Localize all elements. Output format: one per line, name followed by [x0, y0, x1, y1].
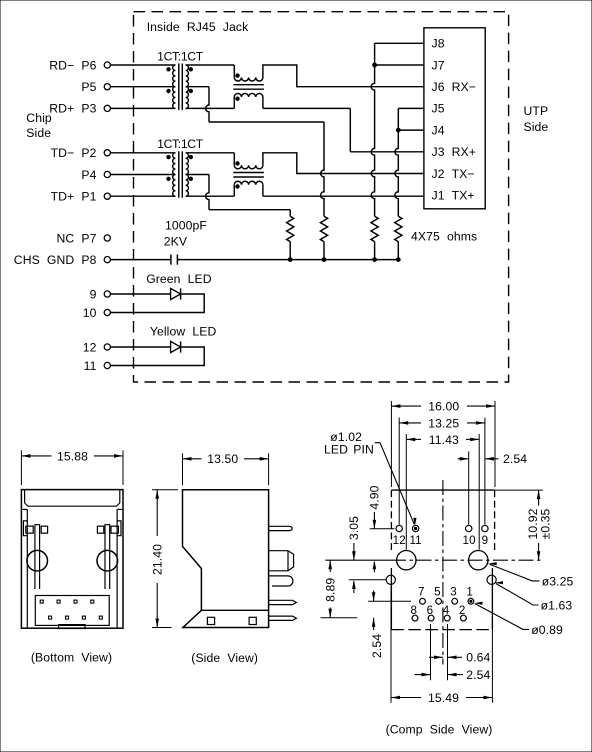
transformer T2 primary winding — [173, 153, 176, 196]
svg-text:13.50: 13.50 — [207, 452, 238, 466]
chip-side pin P3 terminal and label — [49, 102, 110, 116]
svg-text:ø3.25: ø3.25 — [542, 574, 574, 588]
label 1CT:1CT (T1) — [157, 49, 204, 63]
svg-text:2.54: 2.54 — [503, 452, 527, 466]
svg-text:1: 1 — [466, 586, 473, 599]
LED pin hole 9 — [482, 525, 488, 531]
leader o1.02 LED PIN — [324, 430, 417, 526]
wire J5-J4 bridge down to R4 — [395, 108, 424, 216]
wire T2 secondary bottom to choke CM2 — [186, 185, 235, 196]
label J3 — [432, 145, 477, 159]
svg-text:TD− P2: TD− P2 — [51, 146, 97, 160]
T1 polarity dots — [167, 68, 193, 93]
chassis bus wire C1 to resistors — [177, 259, 398, 261]
wire P1 to T2 primary — [110, 195, 175, 197]
svg-text:4.90: 4.90 — [368, 485, 382, 509]
svg-text:Chip: Chip — [26, 111, 52, 125]
wire T2 secondary top to choke CM2 — [186, 153, 235, 165]
choke CM2 core — [233, 173, 264, 178]
wire P3 to T1 primary — [110, 107, 175, 109]
choke CM1 core — [233, 85, 264, 90]
label J8 — [432, 37, 445, 51]
choke CM1 polarity dots — [236, 74, 239, 101]
side view body outline — [183, 490, 269, 628]
label J4 — [432, 123, 445, 137]
svg-text:3.05: 3.05 — [347, 516, 361, 540]
chip-side pin P4 terminal and label — [81, 168, 110, 182]
resistor R2 75 ohm — [320, 216, 327, 259]
side hole right (o1.63) — [487, 575, 496, 584]
bottom view center tab — [59, 625, 85, 629]
wire P6 to T1 primary — [110, 64, 175, 66]
svg-text:2: 2 — [459, 604, 466, 617]
transformer T2 secondary winding — [186, 153, 189, 196]
comp view dim 2.54 top — [458, 452, 528, 525]
labels 8 6 4 2 — [411, 604, 466, 617]
transformer T1 core — [179, 64, 183, 110]
svg-text:±0.35: ±0.35 — [538, 508, 552, 539]
comp view dim 4.90 — [368, 485, 395, 572]
LED pin 12 terminal and label — [83, 340, 111, 354]
bottom view right post pin — [105, 525, 110, 589]
svg-text:10: 10 — [463, 534, 476, 547]
svg-text:11: 11 — [84, 359, 97, 373]
svg-text:RD+ P3: RD+ P3 — [49, 102, 96, 116]
svg-text:8: 8 — [411, 604, 418, 617]
comp view dim 15.49 — [391, 586, 492, 705]
capacitor C1 1000pF 2KV — [171, 255, 178, 265]
svg-text:LED PIN: LED PIN — [324, 442, 374, 456]
wire P2 to T2 primary — [110, 152, 175, 154]
svg-text:J2 TX−: J2 TX− — [432, 167, 475, 181]
wire choke CM1 bottom to node — [263, 97, 350, 108]
svg-text:ø1.63: ø1.63 — [541, 598, 573, 612]
svg-text:10: 10 — [83, 306, 97, 320]
svg-text:1CT:1CT: 1CT:1CT — [157, 137, 204, 151]
svg-text:Side: Side — [524, 120, 549, 134]
side view bottom pads — [207, 617, 256, 624]
svg-text:J7: J7 — [432, 58, 445, 72]
svg-text:9: 9 — [90, 287, 97, 301]
svg-text:J8: J8 — [432, 37, 445, 51]
label Yellow LED — [150, 324, 217, 338]
svg-text:9: 9 — [482, 534, 489, 547]
svg-text:Inside RJ45 Jack: Inside RJ45 Jack — [147, 20, 249, 34]
label J1 — [432, 189, 475, 203]
svg-text:12: 12 — [393, 534, 406, 547]
svg-text:(Bottom View): (Bottom View) — [31, 650, 112, 664]
LED pin 9 terminal and label — [90, 287, 111, 301]
svg-text:Green LED: Green LED — [146, 272, 212, 286]
wire P8 to capacitor C1 — [110, 259, 170, 261]
choke CM2 top winding — [234, 165, 263, 169]
T1 center-tap wire to R2 — [186, 87, 324, 217]
junction dots on chassis bus — [288, 258, 400, 262]
svg-text:4X75 ohms: 4X75 ohms — [411, 230, 477, 244]
svg-text:RD− P6: RD− P6 — [49, 58, 96, 72]
label 1CT:1CT (T2) — [157, 137, 204, 151]
resistor R4 75 ohm — [395, 216, 402, 259]
resistor R1 75 ohm — [287, 216, 294, 259]
contact pin holes rows — [412, 598, 474, 621]
T2 center-tap wire to R1 — [186, 175, 291, 217]
side view latch block — [269, 551, 294, 571]
post hole left (o3.25) — [397, 551, 416, 570]
comp view dim 13.25 — [399, 416, 485, 524]
leader o3.25 — [488, 562, 573, 588]
chip-side pin P7 terminal and label — [57, 231, 111, 245]
chip-side pin P1 terminal and label — [51, 190, 111, 204]
svg-text:12: 12 — [83, 340, 97, 354]
wire D1 loop pin9 to pin10 — [110, 294, 204, 313]
caption (Side View) — [191, 651, 258, 665]
svg-text:(Side View): (Side View) — [191, 651, 258, 665]
svg-text:J1 TX+: J1 TX+ — [432, 189, 475, 203]
side view top pin — [269, 526, 293, 530]
comp view dim 16.00 — [391, 400, 495, 488]
choke CM2 bottom winding — [234, 181, 263, 185]
resistor R3 75 ohm — [371, 216, 378, 259]
svg-text:UTP: UTP — [524, 104, 549, 118]
svg-text:Side: Side — [26, 126, 51, 140]
LED pin 11 terminal and label — [84, 359, 111, 373]
side view LED pin hook — [269, 576, 293, 586]
svg-text:1CT:1CT: 1CT:1CT — [157, 49, 204, 63]
comp view dim 2.54 left — [368, 591, 411, 658]
svg-text:15.88: 15.88 — [57, 449, 88, 463]
choke CM2 polarity dots — [236, 162, 239, 189]
yellow LED D2 — [110, 341, 180, 352]
side hole left (o1.63) — [386, 575, 395, 584]
side view inner bottom line — [201, 609, 268, 611]
comp view dim 11.43 — [406, 433, 479, 550]
svg-text:TD+ P1: TD+ P1 — [51, 190, 97, 204]
svg-text:J3 RX+: J3 RX+ — [432, 145, 477, 159]
label Green LED — [146, 272, 212, 286]
comp view horizontal centerline — [325, 559, 543, 561]
wire D2 loop pin12 to pin11 — [110, 347, 204, 366]
svg-text:J5: J5 — [432, 102, 445, 116]
labels 7 5 3 1 — [418, 586, 473, 599]
side view dim 13.50 — [183, 452, 269, 485]
svg-text:4: 4 — [443, 604, 450, 617]
svg-text:CHS GND P8: CHS GND P8 — [14, 253, 97, 267]
bottom view dim 15.88 — [21, 449, 123, 485]
wire T1 secondary bottom to choke CM1 — [186, 97, 235, 108]
LED pin 10 terminal and label — [83, 306, 111, 320]
svg-text:P5: P5 — [81, 80, 96, 94]
wire choke CM2 top to J2 TX- — [263, 153, 424, 174]
svg-text:Yellow LED: Yellow LED — [150, 324, 217, 338]
wire T1 secondary top to choke CM1 — [186, 65, 235, 77]
wire choke CM2 bottom to J1 TX+ — [263, 185, 424, 196]
svg-text:ø0.89: ø0.89 — [531, 623, 563, 637]
svg-text:0.64: 0.64 — [466, 651, 490, 665]
svg-text:NC P7: NC P7 — [57, 231, 97, 245]
leader o0.89 — [474, 602, 563, 637]
svg-text:13.25: 13.25 — [428, 416, 459, 430]
caption (Comp Side View) — [386, 723, 493, 737]
comp view dim 10.92 +-0.35 — [495, 490, 552, 560]
label 4X75 ohms — [411, 230, 477, 244]
LED pin hole 11 (o1.02) — [412, 525, 418, 531]
side view dim 21.40 — [151, 490, 178, 628]
RJ45 jack connector box — [424, 28, 485, 209]
svg-text:2.54: 2.54 — [466, 668, 490, 682]
label Chip Side — [26, 111, 52, 140]
comp view dim 0.64 — [429, 624, 491, 680]
bottom view left post pin — [35, 525, 40, 589]
bottom view right wall notch — [117, 521, 121, 536]
side view solder pin lower — [269, 616, 297, 620]
label J2 — [432, 167, 475, 181]
bottom view top band — [25, 490, 120, 507]
svg-text:11: 11 — [409, 534, 421, 547]
bottom view left wall notch — [23, 521, 27, 536]
wire P4 to T2 primary tap — [110, 174, 175, 176]
wire J8-J7 bridge down to R3 — [371, 43, 424, 216]
bottom view body outline — [21, 490, 123, 629]
svg-text:2.54: 2.54 — [370, 634, 384, 658]
wire P5 to T1 primary tap — [110, 86, 175, 88]
label UTP Side — [524, 104, 549, 134]
green LED D1 — [110, 288, 180, 299]
bottom view right latch squares — [97, 526, 118, 533]
choke CM1 bottom winding — [234, 93, 263, 97]
dashed enclosure border (Inside RJ45 Jack) — [134, 12, 509, 382]
comp view dim 2.54 bottom — [415, 624, 491, 682]
comp view vertical centerline — [442, 480, 444, 665]
label J7 — [432, 58, 445, 72]
bottom view right post circle — [97, 550, 118, 571]
bottom view connector recess — [35, 596, 109, 626]
label 1000pF — [165, 219, 207, 233]
label J6 — [432, 80, 477, 94]
svg-text:11.43: 11.43 — [429, 433, 459, 447]
choke CM1 top winding — [234, 77, 263, 81]
T2 polarity dots — [167, 155, 193, 180]
transformer T1 secondary winding — [186, 65, 189, 108]
bottom view left post circle — [27, 550, 48, 571]
comp view dim 8.89 — [321, 560, 358, 618]
svg-text:P4: P4 — [81, 168, 96, 182]
wire choke CM1 top to J6 RX- — [263, 65, 424, 87]
svg-text:3: 3 — [450, 586, 457, 599]
transformer T1 primary winding — [173, 65, 176, 108]
svg-text:1000pF: 1000pF — [165, 219, 207, 233]
label Inside RJ45 Jack — [147, 20, 249, 34]
bottom view left latch squares — [26, 526, 48, 533]
svg-text:21.40: 21.40 — [151, 544, 165, 575]
transformer T2 core — [179, 151, 183, 197]
svg-text:(Comp Side View): (Comp Side View) — [386, 723, 493, 737]
LED pin hole 10 — [466, 525, 472, 531]
side view solder pin upper — [269, 600, 297, 604]
svg-text:J4: J4 — [432, 123, 445, 137]
comp view dim 3.05 — [347, 516, 386, 593]
chip-side pin P5 terminal and label — [81, 80, 110, 94]
svg-text:6: 6 — [427, 604, 434, 617]
chip-side pin P8 terminal and label — [14, 253, 111, 267]
svg-text:16.00: 16.00 — [428, 400, 459, 414]
svg-text:J6 RX−: J6 RX− — [432, 80, 477, 94]
svg-text:8.89: 8.89 — [324, 578, 338, 602]
svg-text:2KV: 2KV — [164, 235, 188, 249]
comp view body outline — [391, 490, 494, 629]
bottom view contact pads — [40, 600, 102, 619]
LED pin hole 12 — [396, 525, 402, 531]
caption (Bottom View) — [31, 650, 112, 664]
wire node to J3 RX+ — [350, 108, 424, 151]
label 2KV — [164, 235, 188, 249]
svg-text:5: 5 — [434, 586, 441, 599]
chip-side pin P6 terminal and label — [49, 58, 110, 72]
label J5 — [432, 102, 445, 116]
svg-text:15.49: 15.49 — [428, 691, 459, 705]
post hole right (o3.25) — [469, 551, 488, 570]
labels 12 11 10 9 — [393, 534, 489, 547]
leader o1.63 — [495, 581, 573, 612]
bottom view inner side walls — [21, 509, 123, 628]
chip-side pin P2 terminal and label — [51, 146, 111, 160]
svg-text:7: 7 — [418, 586, 425, 599]
